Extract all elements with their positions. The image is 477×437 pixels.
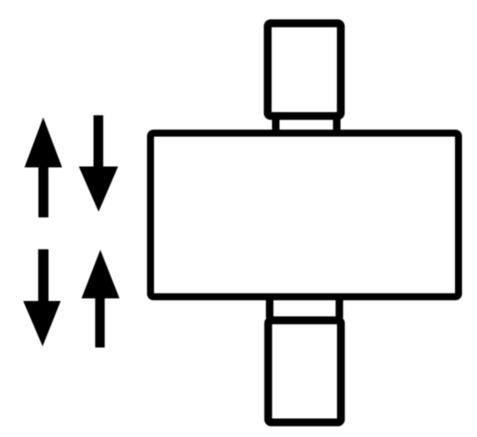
arrow up (top-left) <box>25 117 63 217</box>
bottom neck right wire <box>336 296 344 318</box>
specimen body rectangle <box>151 133 459 297</box>
arrow up (bottom-right) <box>82 250 120 348</box>
top neck right wire <box>333 114 341 134</box>
bottom terminal block <box>268 320 341 422</box>
top neck left wire <box>272 114 280 134</box>
bottom neck left wire <box>266 296 274 318</box>
top terminal block <box>268 23 341 116</box>
arrow down (bottom-left) <box>23 249 61 346</box>
arrow down (top-right) <box>79 115 118 212</box>
